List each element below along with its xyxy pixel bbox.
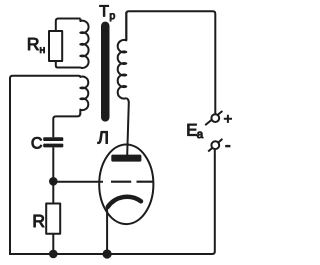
transformer core Тр: [101, 22, 110, 122]
capacitor C plate 1: [43, 137, 63, 141]
capacitor C plate 2: [43, 144, 63, 148]
node: grid junction dot: [49, 177, 58, 186]
label Тр: [100, 5, 115, 21]
inductor L2: transformer primary lower winding (3 turns): [79, 76, 89, 115]
wire: secondary bottom to tube anode: [126, 98, 129, 155]
wire: tap from left rail to primary lower winding top: [10, 76, 79, 255]
wire: top rail from secondary to + terminal: [126, 11, 215, 113]
wire: grid node down to resistor R: [52, 181, 54, 203]
wire: grid node to tube grid lead: [53, 181, 103, 183]
label Л: [98, 131, 108, 143]
inductor L1: transformer primary upper winding (4 turns): [80, 19, 88, 68]
wire: resistor R bottom to bottom rail: [52, 234, 54, 254]
label R: [34, 215, 44, 227]
label Rн: [28, 38, 44, 53]
wire: − terminal down and bottom rail to left rail: [10, 150, 215, 254]
resistor R2 (R) body: [46, 204, 60, 234]
wire: cathode lead down to bottom rail: [106, 206, 108, 255]
terminal − (clamp): [208, 139, 222, 152]
wire: top-left from Rн top to primary winding top: [56, 19, 81, 32]
inductor L3: transformer secondary winding (5 turns): [118, 12, 127, 99]
tube anode plate: [111, 155, 141, 162]
vacuum tube U1 (Л) envelope: [99, 145, 153, 225]
wire: primary lower winding bottom to capacitor C top: [53, 113, 80, 137]
label C: [32, 137, 42, 148]
resistor R1 (Rн) body: [49, 31, 62, 61]
terminal + (clamp): [205, 111, 222, 125]
label Eа: [188, 124, 204, 138]
node: junction dot R / bottom rail: [49, 250, 58, 259]
label −: [225, 145, 230, 147]
wire: capacitor C bottom to grid node: [52, 147, 54, 181]
tube cathode: [108, 197, 141, 207]
label +: [224, 115, 232, 123]
tube grid (dashed): [111, 181, 153, 183]
node: junction dot cathode / bottom rail: [103, 249, 112, 258]
wire: Rн bottom to primary upper winding bottom: [56, 61, 81, 68]
